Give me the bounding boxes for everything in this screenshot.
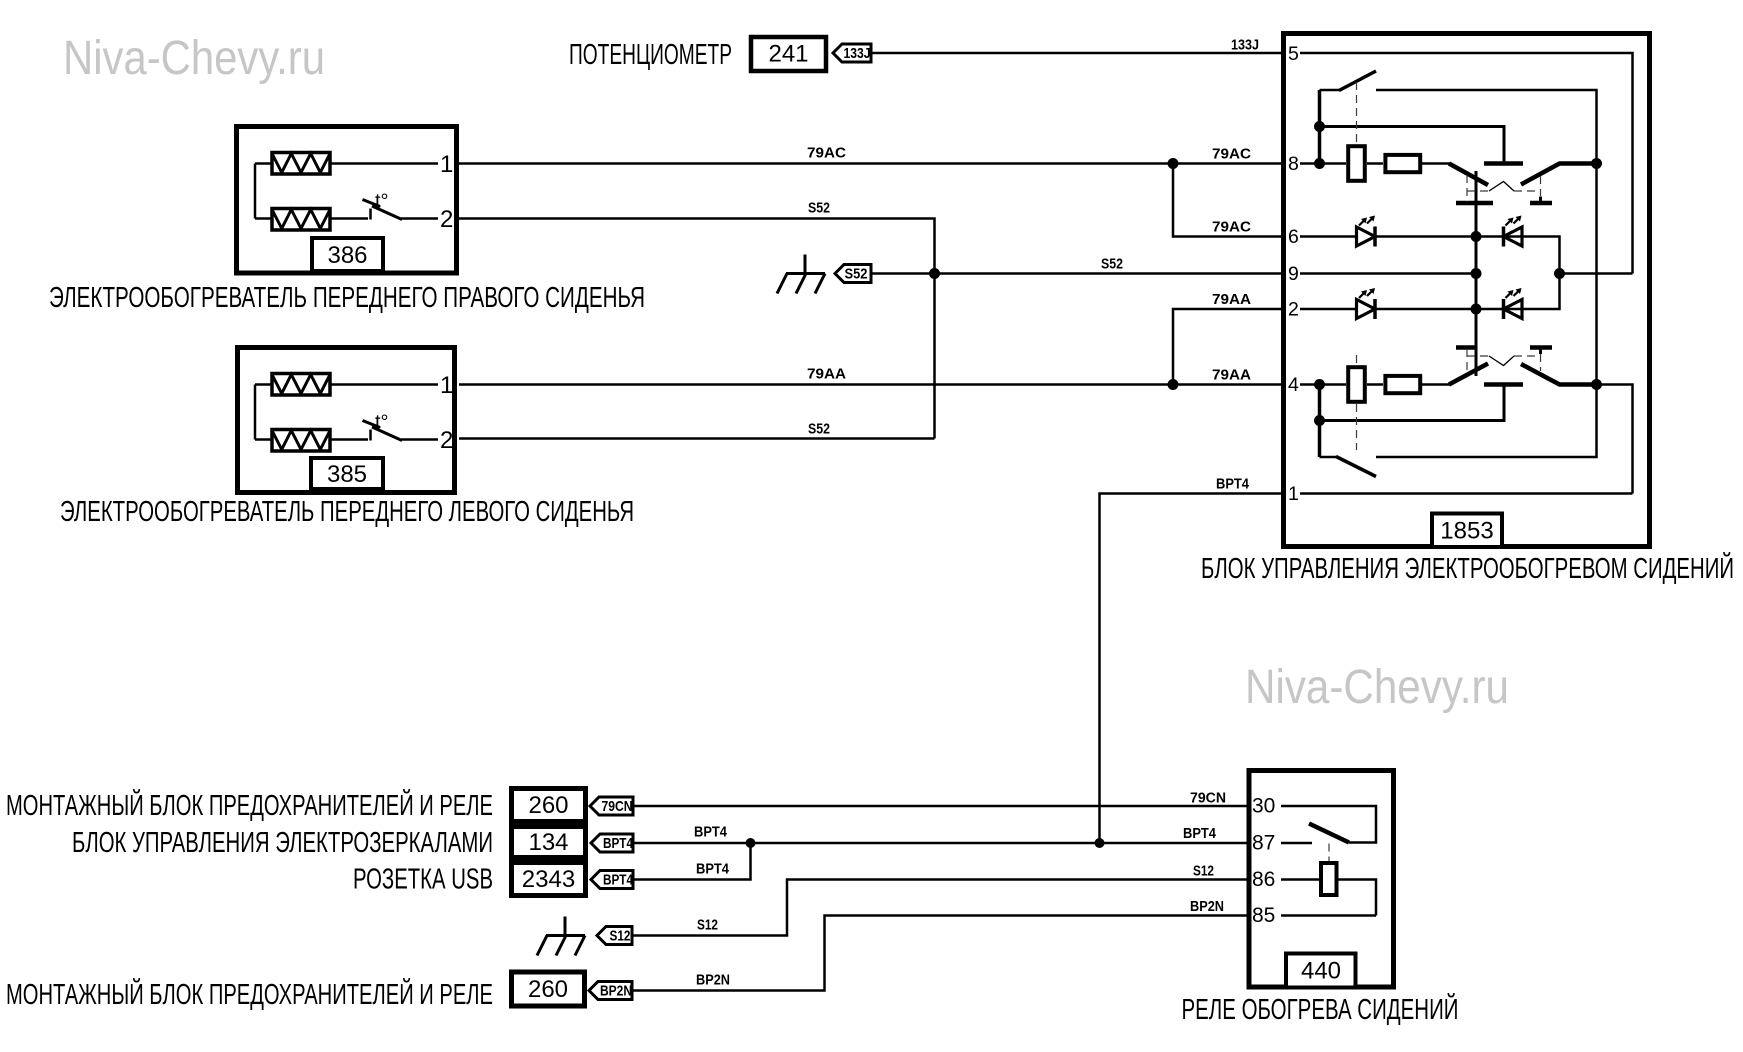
svg-text:2: 2 [1288,299,1299,321]
LED pin2 left [1300,308,1357,311]
wire pin 87 stub [1281,842,1312,845]
node BPT4 junction at x1099 [1095,838,1105,848]
wire 79AC branch down to pin 6 [1173,164,1282,237]
svg-text:РЕЛЕ ОБОГРЕВА СИДЕНИЙ: РЕЛЕ ОБОГРЕВА СИДЕНИЙ [1182,992,1459,1026]
wire BPT4 net: boxes 134/2343 to relay 87 and block pin 1 [633,842,1247,845]
wire pin5 internal to right vertical [1300,53,1633,274]
node top-right contact junction [1591,158,1602,169]
mech link dash top coil [1356,82,1358,144]
switch top-left vertical [1318,90,1322,164]
wire coil to resistor bottom [1367,383,1383,386]
mech link dash left contact top [1466,175,1468,202]
svg-text:241: 241 [768,41,808,68]
box 260 bottom [512,972,585,1006]
relay switch arm [1309,824,1349,843]
svg-text:МОНТАЖНЫЙ БЛОК ПРЕДОХРАНИТЕЛЕЙ: МОНТАЖНЫЙ БЛОК ПРЕДОХРАНИТЕЛЕЙ И РЕЛЕ [6,788,493,822]
connector BP2N pentagon [589,982,632,1000]
svg-text:S12: S12 [697,918,718,934]
svg-text:БЛОК УПРАВЛЕНИЯ ЭЛЕКТРООБОГРЕВ: БЛОК УПРАВЛЕНИЯ ЭЛЕКТРООБОГРЕВОМ СИДЕНИЙ [1201,551,1734,585]
svg-text:Niva-Chevy.ru: Niva-Chevy.ru [1245,661,1509,714]
svg-text:S12: S12 [1193,864,1214,880]
contact bar upper-left bottom half [1456,345,1477,350]
contact arm top-left [1449,164,1488,186]
svg-text:ЭЛЕКТРООБОГРЕВАТЕЛЬ ПЕРЕДНЕГО: ЭЛЕКТРООБОГРЕВАТЕЛЬ ПЕРЕДНЕГО ЛЕВОГО СИД… [60,496,634,528]
svg-text:S52: S52 [808,422,830,438]
wire switch top fixed side [1376,90,1597,164]
wire pin2 to right LED [1476,308,1504,311]
wire pin 86 internal [1281,878,1319,881]
mech link dash right contact bottom [1540,354,1542,371]
mech link dash horizontal top [1467,190,1489,192]
svg-text:79AA: 79AA [1212,368,1252,384]
svg-text:ЭЛЕКТРООБОГРЕВАТЕЛЬ ПЕРЕДНЕГО: ЭЛЕКТРООБОГРЕВАТЕЛЬ ПЕРЕДНЕГО ПРАВОГО СИ… [49,282,645,314]
wire S52 heater 386 pin 2 going right then down [459,219,935,439]
relay coil top (vertical rect) [1348,146,1365,181]
box 2343 [512,863,586,896]
svg-text:79AC: 79AC [1212,147,1252,163]
stub upper-right bar bottom half [1539,348,1542,355]
connector S52 pentagon [835,265,871,283]
svg-text:8: 8 [1288,153,1299,175]
contact arm bottom-left [1449,364,1488,385]
node pin8 junction [1314,158,1325,169]
connector S12 pentagon [597,927,632,945]
stub lower-right bar [1539,197,1542,204]
svg-text:440: 440 [1301,958,1341,985]
svg-text:S12: S12 [610,928,631,945]
wire pin6 right LED to down corner [1504,237,1560,274]
node inner bottom junction [1314,415,1325,426]
wire pin6 center [1375,235,1476,238]
svg-text:BPT4: BPT4 [1216,477,1249,493]
svg-text:4: 4 [1288,374,1299,396]
svg-text:79AA: 79AA [807,367,847,383]
svg-text:S52: S52 [1101,257,1123,273]
connector BPT4 pentagon (134) [591,834,633,852]
contact arm bottom-right [1521,364,1597,385]
svg-text:BP2N: BP2N [696,973,730,989]
box label 385 [311,458,383,489]
wire 79AA branch up to pin 2 [1173,309,1282,385]
switch bottom arm [1336,457,1376,477]
box 241 potentiometer [751,37,826,71]
svg-text:79AC: 79AC [1212,220,1252,236]
svg-text:Niva-Chevy.ru: Niva-Chevy.ru [63,32,325,85]
wire pin1 internal [1300,492,1633,495]
node 79AC branch junction [1168,158,1179,169]
relay coil [1321,863,1337,895]
connector 133J pentagon [833,44,871,62]
mech link dash relay [1328,844,1330,862]
wire coil right to pin 85 [1339,880,1377,916]
heater 385 box (front left seat heater) [238,348,455,493]
svg-text:BPT4: BPT4 [1183,826,1216,842]
svg-text:85: 85 [1252,904,1275,927]
contact arm top-right [1521,164,1597,185]
switch top stub [1320,89,1341,92]
wire coil to resistor [1367,162,1383,165]
svg-text:1853: 1853 [1440,518,1493,545]
switch bottom stub [1320,456,1338,459]
switch bottom-left vertical [1318,385,1322,458]
svg-text:385: 385 [327,461,367,488]
feed from bottom-center bar down [1320,385,1505,421]
wire pin9 internal right segment [1560,272,1633,275]
box 134 [512,827,586,858]
node bottom-right contact junction [1591,379,1602,390]
heater 386 box (front right seat heater) [237,127,457,274]
svg-text:BPT4: BPT4 [603,872,634,889]
svg-text:386: 386 [327,242,367,269]
wire switch bottom fixed side [1376,385,1597,458]
node S52 junction [929,268,940,279]
relay 440 outer box [1249,771,1394,988]
wire pin4 to coil [1300,383,1346,386]
wire BPT4 from USB socket up [633,843,751,880]
svg-text:S52: S52 [808,201,830,217]
contact bar bottom-center [1484,382,1523,387]
node BPT4 junction at x750 [746,838,756,848]
svg-text:9: 9 [1288,263,1299,285]
center vertical conductor [1475,171,1478,376]
node inner top junction [1314,121,1325,132]
node pin9 center junction [1471,268,1482,279]
svg-text:79AC: 79AC [807,146,847,162]
svg-text:133J: 133J [844,45,871,62]
box label 1853 [1432,514,1502,548]
svg-text:BPT4: BPT4 [696,862,729,878]
svg-text:260: 260 [528,976,568,1003]
svg-text:BP2N: BP2N [1190,899,1224,915]
node pin2 center junction [1471,304,1482,315]
mech link dash left contact bottom [1466,349,1468,371]
LED pin6 left [1300,235,1357,238]
wire 79AA heater 385 pin 1 to block pin 4 [459,383,1282,386]
svg-text:ПОТЕНЦИОМЕТР: ПОТЕНЦИОМЕТР [569,39,732,71]
wire S52 heater 385 pin 2 [459,437,935,440]
wire pin 30 internal [1281,806,1376,843]
mech link dash right contact top [1540,176,1542,196]
thermal valley bottom [1489,356,1514,366]
wire S52 from ground connector to block pin 9 [871,272,1282,275]
wire 133J from potentiometer connector to block pin 5 [871,52,1282,55]
svg-text:133J: 133J [1231,38,1259,54]
LED pin2 right (mirrored) [1504,299,1523,319]
svg-text:РОЗЕТКА USB: РОЗЕТКА USB [353,864,493,896]
wire S12 ground to relay pin 86 [632,880,1247,936]
heater 385 internals: resistors and thermal switch [255,372,453,454]
control unit 1853 outer box [1284,34,1650,547]
wire inner mid horizontal to center contact feed [1320,127,1505,162]
box label 440 [1286,954,1356,988]
wire pin6 to right LED [1476,235,1504,238]
wire pin 85 internal [1281,914,1376,917]
box label 386 [312,238,383,271]
svg-text:BPT4: BPT4 [694,825,727,841]
svg-text:260: 260 [528,792,568,819]
svg-text:87: 87 [1252,832,1275,855]
svg-text:2343: 2343 [522,866,575,893]
switch top arm [1339,71,1376,91]
svg-text:30: 30 [1252,795,1275,818]
node pin4 junction [1314,379,1325,390]
wire 79AC heater 386 pin 1 to block pin 8 [459,162,1282,165]
svg-text:134: 134 [528,829,568,856]
connector BPT4 pentagon (2343) [591,871,633,889]
node pin6 center junction [1471,231,1482,242]
svg-text:86: 86 [1252,868,1275,891]
svg-text:6: 6 [1288,226,1299,248]
contact bar top-center [1484,161,1523,166]
wire resistor to contact arm [1422,162,1450,165]
resistor bottom [1385,376,1420,393]
wire pin2 right LED up corner [1504,274,1560,310]
svg-text:МОНТАЖНЫЙ БЛОК ПРЕДОХРАНИТЕЛЕЙ: МОНТАЖНЫЙ БЛОК ПРЕДОХРАНИТЕЛЕЙ И РЕЛЕ [6,977,493,1011]
relay coil bottom [1348,367,1365,402]
node 79AA branch junction [1168,379,1179,390]
mech link dash bottom coil [1356,355,1358,363]
svg-text:BP2N: BP2N [600,983,632,1000]
connector 79CN pentagon [590,797,633,815]
svg-text:79AA: 79AA [1212,292,1252,308]
wire BPT4 vertical up to block pin 1 [1100,494,1283,844]
contact bar upper-right bottom half [1530,345,1552,350]
svg-text:79CN: 79CN [1190,791,1226,807]
svg-text:BPT4: BPT4 [603,835,634,852]
svg-text:5: 5 [1288,43,1299,65]
wire pin4 junction right to corner [1597,385,1633,494]
svg-text:S52: S52 [845,266,868,283]
thermal peak top [1489,182,1514,192]
node pin9 right junction [1554,268,1565,279]
resistor top [1385,155,1420,172]
contact bar lower-left [1456,201,1493,206]
wire pin9 internal left segment [1300,272,1476,275]
contact bar lower-right [1530,201,1552,206]
mech link dash horizontal bottom [1467,355,1489,357]
right long vertical conductor [1595,164,1598,385]
svg-text:1: 1 [1288,483,1299,505]
ground S12 [537,917,585,956]
wire pin8 to coil [1300,162,1346,165]
box 260 top [512,789,586,822]
svg-text:79CN: 79CN [602,798,633,815]
ground S52 [777,255,825,294]
svg-text:БЛОК УПРАВЛЕНИЯ ЭЛЕКТРОЗЕРКАЛА: БЛОК УПРАВЛЕНИЯ ЭЛЕКТРОЗЕРКАЛАМИ [72,827,493,859]
wire BP2N box 260 to relay pin 85 [632,916,1247,991]
LED pin6 right (mirrored) [1504,227,1523,247]
heater 386 internals: resistors and thermal switch [255,151,453,233]
wire 79CN box 260 to relay pin 30 [633,805,1247,808]
wire resistor to contact arm bottom [1422,383,1450,386]
wire pin2 center [1375,308,1476,311]
